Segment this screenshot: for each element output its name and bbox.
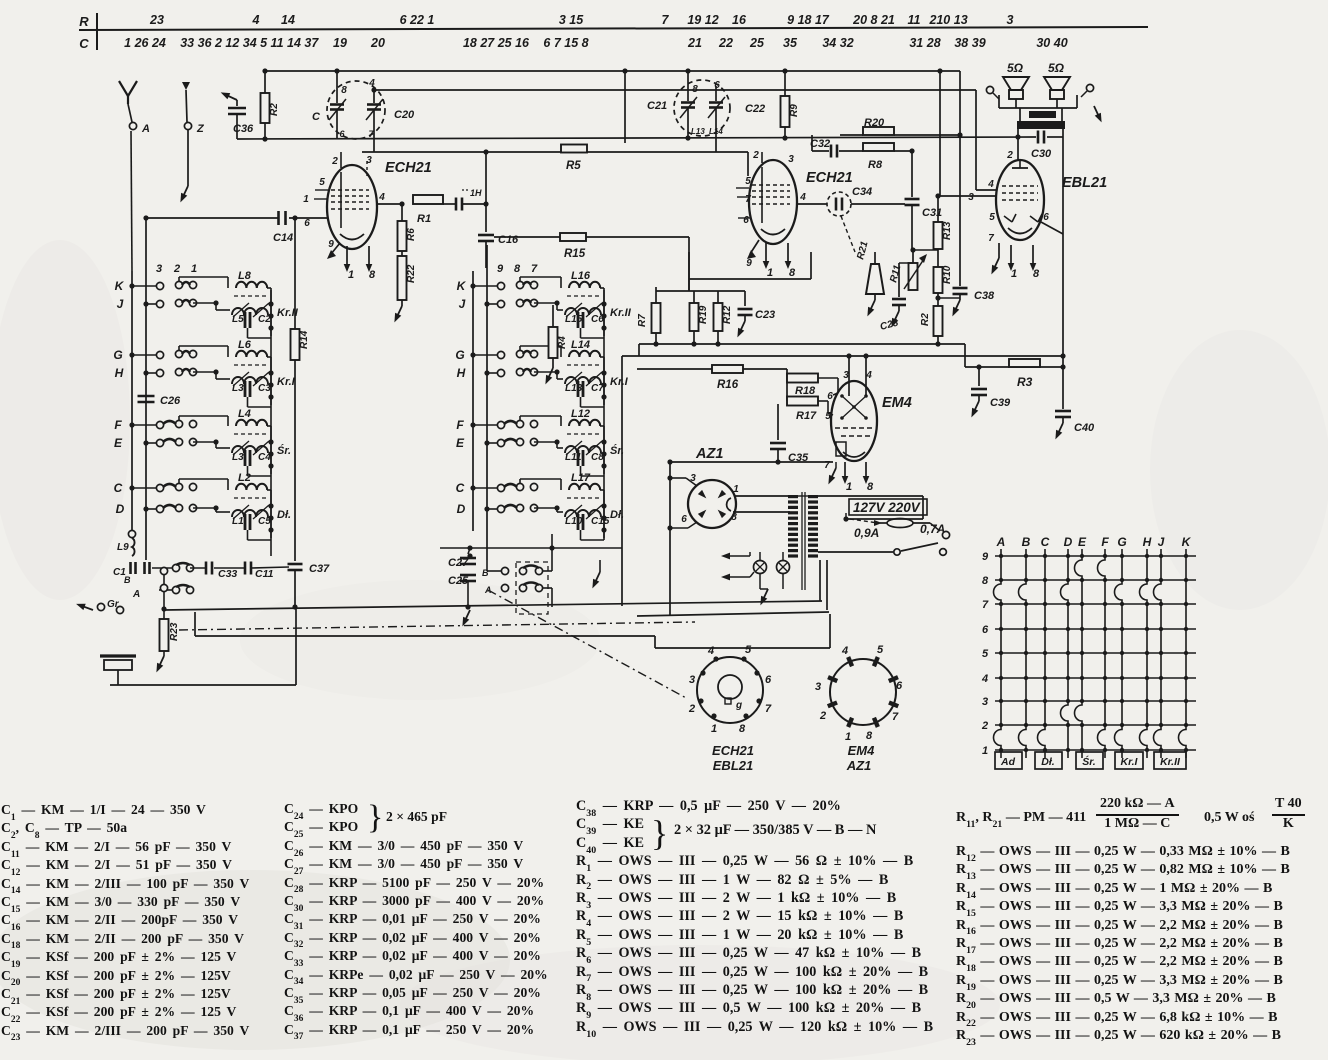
svg-text:R17: R17 [796, 410, 817, 422]
band selector dashed box [516, 562, 548, 614]
svg-text:R23: R23 [169, 622, 180, 641]
svg-text:G: G [113, 348, 122, 362]
resistor R1 [413, 195, 443, 204]
EM4 internal target [842, 396, 866, 418]
svg-text:K: K [1182, 535, 1192, 549]
svg-text:7: 7 [531, 263, 538, 275]
wire row lower to tank [193, 302, 216, 304]
coil L8 [236, 282, 267, 288]
svg-text:3: 3 [689, 674, 695, 686]
capacitor C28 [899, 262, 913, 264]
svg-text:L3: L3 [232, 383, 244, 394]
svg-text:Dł.: Dł. [277, 509, 291, 521]
coil L2 [236, 484, 267, 490]
svg-text:A: A [132, 589, 140, 600]
svg-text:D: D [116, 502, 125, 516]
wire row lower to tank [193, 441, 216, 443]
transformer top wires [798, 495, 808, 497]
svg-text:5Ω: 5Ω [1048, 61, 1065, 75]
wire R15 row to tube2 [688, 237, 690, 291]
resistor R9 [784, 71, 786, 96]
tube EBL21 [996, 160, 1044, 240]
ECH21 cathode arrow 1 [346, 246, 348, 266]
svg-text:Kr.I: Kr.I [277, 376, 296, 388]
matrix row 1 line [995, 749, 1196, 751]
lamp ground [760, 588, 768, 590]
svg-text:C15: C15 [591, 516, 610, 527]
padder capacitor bars [577, 312, 580, 328]
svg-text:18 27 25 16: 18 27 25 16 [463, 36, 530, 50]
bus wire HT [639, 343, 965, 345]
padder capacitor bars [577, 450, 580, 466]
capacitor C18 coupling [455, 198, 458, 211]
resistor R4 [552, 305, 554, 327]
switch shaft dash-dot line [179, 622, 695, 630]
matrix row 7 line [995, 603, 1196, 605]
svg-text:1: 1 [846, 481, 852, 493]
parts list column 2 [284, 801, 548, 1040]
svg-text:C: C [456, 481, 465, 495]
tank coil L3 [232, 377, 268, 384]
svg-text:R8: R8 [868, 159, 883, 171]
wire row upper to coil [178, 277, 180, 281]
switch row contacts lower [143, 440, 148, 445]
wire row lower to tank [534, 371, 557, 373]
svg-text:R19: R19 [698, 305, 709, 324]
svg-text:EM4: EM4 [882, 395, 912, 411]
wire row lower to tank [534, 302, 557, 304]
svg-text:C28: C28 [879, 317, 900, 332]
svg-text:C11: C11 [255, 568, 274, 580]
dashed core line [234, 295, 268, 297]
svg-text:8: 8 [731, 512, 737, 523]
tube EM4 [831, 381, 877, 461]
switch row contacts upper [470, 485, 475, 490]
capacitor C11 [244, 562, 247, 575]
svg-text:G: G [455, 348, 464, 362]
tank coil L1 [232, 510, 268, 517]
grid coupling bus wire [362, 151, 748, 153]
ECH21 cathode arrow 8 [368, 246, 370, 266]
svg-text:Kr.II: Kr.II [1160, 756, 1181, 768]
matrix column F line [1098, 549, 1105, 758]
terminal Z arrow [182, 82, 190, 90]
matrix junction dots [999, 554, 1003, 558]
chassis bus wire [164, 601, 822, 610]
wire row B to C33 [190, 567, 207, 569]
svg-text:C23: C23 [755, 309, 775, 321]
svg-text:4: 4 [987, 179, 994, 190]
svg-text:6: 6 [896, 680, 903, 692]
svg-text:1: 1 [845, 731, 851, 743]
matrix function box Kr.II [1154, 752, 1186, 769]
svg-text:C16: C16 [498, 234, 519, 246]
output transformer [1029, 111, 1056, 118]
capacitor C33 [205, 562, 208, 575]
resistor R19 [693, 291, 695, 303]
svg-text:1: 1 [733, 484, 739, 495]
capacitor C1 [129, 562, 132, 574]
resistor R20 [863, 127, 894, 135]
svg-text:8: 8 [867, 481, 874, 493]
wire C16 column [485, 152, 487, 232]
svg-text:8: 8 [692, 84, 698, 95]
parts list column 3 [576, 797, 933, 1036]
capacitor C32 [830, 145, 833, 158]
mains terminal right [942, 531, 949, 538]
svg-text:8: 8 [866, 730, 873, 742]
wire R16 row [637, 368, 712, 370]
middle contact rows [501, 567, 508, 574]
corner bus wires [638, 344, 640, 356]
svg-text:R20: R20 [864, 117, 885, 129]
wire row upper to coil [178, 346, 180, 350]
wire row upper to coil [178, 416, 180, 420]
svg-text:2: 2 [929, 13, 937, 27]
wire R14 to C37 [294, 360, 296, 561]
svg-text:A: A [484, 585, 492, 595]
mains transformer core [801, 492, 803, 590]
svg-text:J: J [1158, 535, 1165, 549]
wire row upper to coil [178, 479, 180, 483]
capacitor C31 [905, 198, 920, 201]
tank coil L10 [565, 510, 601, 517]
svg-text:8: 8 [739, 723, 746, 735]
svg-text:7: 7 [892, 711, 899, 723]
svg-text:L13: L13 [691, 127, 705, 136]
matrix column C line [1038, 549, 1045, 758]
svg-text:R16: R16 [717, 379, 739, 391]
trimmer C20 [373, 88, 375, 103]
svg-text:R13: R13 [942, 221, 953, 240]
svg-text:L12: L12 [571, 408, 590, 420]
dashed core line [234, 433, 268, 435]
svg-text:6: 6 [743, 215, 749, 226]
transformer bottom leads [819, 560, 821, 601]
svg-text:C36: C36 [233, 123, 254, 135]
svg-text:5: 5 [989, 212, 995, 223]
wire R3 row [965, 366, 1063, 368]
ground arrow gramophone [75, 601, 94, 614]
svg-text:R6: R6 [406, 228, 417, 241]
svg-text:Z: Z [196, 123, 205, 135]
switch row contacts lower [143, 301, 148, 306]
coil L12 [569, 420, 600, 426]
potentiometer R11 [912, 250, 914, 263]
svg-text:22: 22 [718, 36, 733, 50]
tank right connections [268, 301, 273, 306]
svg-text:F: F [456, 418, 464, 432]
socket 1 key [725, 698, 731, 704]
switch row contacts lower [484, 301, 489, 306]
dashed core line [567, 433, 601, 435]
svg-text:ECH21: ECH21 [712, 743, 754, 758]
svg-text:B: B [1022, 535, 1031, 549]
svg-text:L8: L8 [238, 270, 252, 282]
wire row lower to tank [193, 507, 216, 509]
svg-text:3: 3 [366, 155, 372, 166]
svg-text:1: 1 [1011, 268, 1017, 280]
anode supply vertical wire [1062, 137, 1064, 409]
svg-text:C20: C20 [394, 109, 415, 121]
svg-text:R3: R3 [1017, 375, 1033, 389]
svg-text:8: 8 [982, 575, 989, 587]
earth return wire nested [195, 635, 655, 637]
svg-text:C22: C22 [745, 103, 765, 115]
AZ1 anode wedges [716, 508, 727, 519]
socket 1 pins [713, 656, 718, 661]
left switch bus 1 [131, 271, 133, 531]
wire padder2 down 2 [715, 125, 717, 152]
svg-text:D: D [457, 502, 466, 516]
svg-text:9 18 17: 9 18 17 [787, 13, 830, 27]
terminal Z [184, 122, 191, 129]
switch row contacts upper [129, 485, 134, 490]
svg-text:J: J [117, 297, 124, 311]
socket 2 pins [846, 656, 854, 667]
mains transformer primary winding [788, 495, 798, 498]
tank coil L15 [565, 308, 601, 315]
output terminal left [986, 86, 993, 93]
capacitor C23 [744, 291, 746, 306]
ECH21-2 cathode arrow 1 [765, 243, 767, 263]
svg-text:1: 1 [982, 745, 988, 757]
svg-text:6: 6 [982, 624, 989, 636]
svg-text:C14: C14 [273, 232, 293, 244]
tank right connections [601, 439, 606, 444]
svg-text:6: 6 [1043, 212, 1049, 223]
wires R20 R8 row [840, 134, 863, 136]
matrix column A line [994, 549, 1001, 758]
tube ECH21 second [749, 160, 797, 244]
wire R15 row [494, 236, 689, 238]
svg-text:Śr.: Śr. [277, 444, 291, 457]
wire oscillator feed vertical [624, 71, 626, 143]
capacitor C37 [288, 563, 303, 566]
svg-text:5: 5 [982, 648, 989, 660]
svg-text:F: F [114, 418, 122, 432]
svg-text:5Ω: 5Ω [1007, 61, 1024, 75]
parts list column 1 [1, 802, 249, 1041]
wire row lower to tank [193, 371, 216, 373]
wires R18 R17 to EM4 [818, 377, 838, 379]
svg-text:AZ1: AZ1 [846, 758, 872, 773]
svg-text:R18: R18 [795, 385, 816, 397]
svg-text:4: 4 [252, 13, 260, 27]
tank right connections [601, 370, 606, 375]
padder unit 2 circle (dashed) [674, 80, 730, 136]
resistor R6 [401, 204, 403, 221]
chassis earth wire [110, 684, 296, 686]
bus wire AVC long [622, 355, 1063, 357]
coil L6 [236, 351, 267, 357]
svg-text:1: 1 [191, 263, 197, 275]
wire C31 column [911, 151, 913, 197]
svg-text:1H: 1H [470, 188, 482, 198]
dashed core line [567, 295, 601, 297]
resistor R17 [787, 397, 818, 406]
wire row lower to tank [534, 441, 557, 443]
svg-text:34 32: 34 32 [822, 36, 853, 50]
bus wire AVC line [237, 137, 1036, 139]
lamp wires [759, 552, 761, 561]
svg-text:21: 21 [687, 36, 702, 50]
tank right connections [268, 370, 273, 375]
svg-text:20: 20 [370, 36, 385, 50]
coil L17 [569, 484, 600, 490]
tube2 bottom return wires [688, 252, 690, 279]
pilot lamps [754, 561, 767, 574]
svg-text:Ad: Ad [1000, 756, 1016, 768]
svg-text:Kr.II: Kr.II [610, 307, 632, 319]
svg-text:4: 4 [841, 645, 848, 657]
svg-text:7: 7 [988, 233, 994, 244]
svg-text:B: B [124, 575, 131, 585]
dashed core line [567, 497, 601, 499]
svg-text:6 22 1: 6 22 1 [400, 13, 435, 27]
svg-text:C39: C39 [990, 397, 1011, 409]
svg-text:Śr.: Śr. [1082, 755, 1096, 768]
EBL21 cathode arrow 8 [1032, 245, 1034, 265]
switch contact row A [172, 586, 179, 593]
svg-text:C26: C26 [160, 395, 181, 407]
svg-text:C34: C34 [852, 186, 872, 198]
svg-text:L10: L10 [565, 516, 583, 527]
matrix column E line [1075, 549, 1082, 758]
matrix function box Śr. [1076, 752, 1103, 769]
ECH21 internal electrodes [340, 172, 342, 228]
svg-text:5: 5 [877, 644, 884, 656]
svg-text:R15: R15 [564, 248, 586, 260]
capacitor C36 antenna coupling [236, 100, 238, 106]
svg-text:R: R [79, 14, 89, 29]
svg-text:C37: C37 [309, 563, 330, 575]
svg-text:L5: L5 [232, 314, 244, 325]
wire pin5 ECH21-2 feed [747, 152, 749, 176]
coil L16 [569, 282, 600, 288]
svg-text:C: C [79, 36, 89, 51]
switch row contacts lower [143, 506, 148, 511]
mains voltage selector 127V 220V [818, 495, 923, 497]
svg-text:R5: R5 [566, 160, 581, 172]
tank coil L11 [565, 446, 601, 453]
resistor R12 [717, 291, 719, 303]
padder capacitor bars [577, 381, 580, 397]
speaker 1 [1003, 77, 1029, 90]
svg-text:R2: R2 [269, 103, 280, 116]
svg-text:ECH21: ECH21 [806, 170, 853, 186]
trimmer C22 [715, 86, 717, 101]
resistor R8 [863, 143, 894, 151]
tank right connections [268, 439, 273, 444]
resistor R7 [655, 287, 657, 303]
wire R11 top to R13 column [913, 249, 938, 251]
svg-text:4 5 11 14 37: 4 5 11 14 37 [249, 36, 320, 50]
svg-text:38 39: 38 39 [954, 36, 985, 50]
wire padder to grid bus [374, 89, 976, 91]
svg-text:9: 9 [746, 258, 752, 269]
resistor R2 [264, 71, 266, 93]
svg-text:H: H [1143, 535, 1152, 549]
EM4 cathode arrow 8 [865, 462, 867, 478]
svg-text:11: 11 [908, 13, 921, 27]
matrix column D line [1061, 549, 1068, 758]
svg-text:H: H [457, 366, 466, 380]
svg-text:2: 2 [173, 263, 180, 275]
ground below R23 [163, 651, 165, 656]
wire screen feed vertical [939, 71, 941, 196]
svg-text:4: 4 [368, 78, 375, 89]
svg-text:E: E [456, 436, 465, 450]
svg-text:0,7A: 0,7A [920, 522, 945, 536]
svg-text:8: 8 [1033, 268, 1040, 280]
matrix row 8 line [995, 579, 1196, 581]
svg-text:1: 1 [348, 269, 354, 281]
svg-text:23: 23 [149, 13, 164, 27]
switch row contacts lower [143, 370, 148, 375]
svg-text:4: 4 [799, 192, 806, 203]
svg-text:25: 25 [749, 36, 765, 50]
EM4 cathode arrow 1 [844, 462, 846, 478]
svg-text:A: A [996, 535, 1006, 549]
capacitor C34 in dashed circle [827, 192, 851, 216]
svg-text:6 7 15 8: 6 7 15 8 [543, 36, 588, 50]
fuse 0,7A [887, 519, 913, 528]
resistor R15 [560, 233, 586, 241]
svg-text:C35: C35 [788, 452, 809, 464]
svg-text:L15: L15 [565, 314, 583, 325]
contact column [160, 567, 167, 574]
svg-text:14: 14 [281, 13, 295, 27]
padder capacitor bars [577, 514, 580, 530]
svg-text:5: 5 [825, 411, 831, 422]
svg-text:g: g [735, 700, 742, 711]
chassis symbol [100, 654, 136, 657]
svg-text:19 12: 19 12 [687, 13, 718, 27]
matrix column G line [1115, 549, 1123, 758]
svg-text:8: 8 [341, 85, 347, 96]
coil L14 [569, 351, 600, 357]
left bank tank bus [270, 290, 272, 556]
svg-text:R21: R21 [855, 240, 870, 261]
antenna [127, 95, 129, 104]
svg-text:2: 2 [688, 703, 695, 715]
switch shaft diagonal [488, 590, 688, 699]
mains transformer secondary winding [808, 495, 818, 498]
svg-text:Kr.I: Kr.I [610, 376, 629, 388]
wire grid2 vertical [975, 90, 977, 190]
svg-text:L16: L16 [571, 270, 591, 282]
dashed voltage link [850, 519, 878, 523]
svg-text:2: 2 [752, 150, 759, 161]
svg-text:R2: R2 [920, 313, 931, 326]
matrix function box Ad [995, 752, 1022, 769]
svg-text:R4: R4 [557, 336, 568, 349]
svg-text:16: 16 [732, 13, 747, 27]
svg-text:R1: R1 [417, 213, 431, 225]
tank right connections [601, 301, 606, 306]
socket ECH21 EBL21 [697, 657, 763, 723]
speaker bus wires [999, 107, 1077, 109]
wire pin6 down [336, 127, 338, 139]
wires transformer to anode [1017, 129, 1019, 137]
svg-text:8: 8 [369, 269, 376, 281]
ECH21-2 internal electrodes [761, 167, 763, 223]
matrix row 2 line [995, 724, 1196, 726]
tank right connections [268, 503, 273, 508]
svg-text:35: 35 [783, 36, 798, 50]
wire row upper to coil [519, 416, 521, 420]
